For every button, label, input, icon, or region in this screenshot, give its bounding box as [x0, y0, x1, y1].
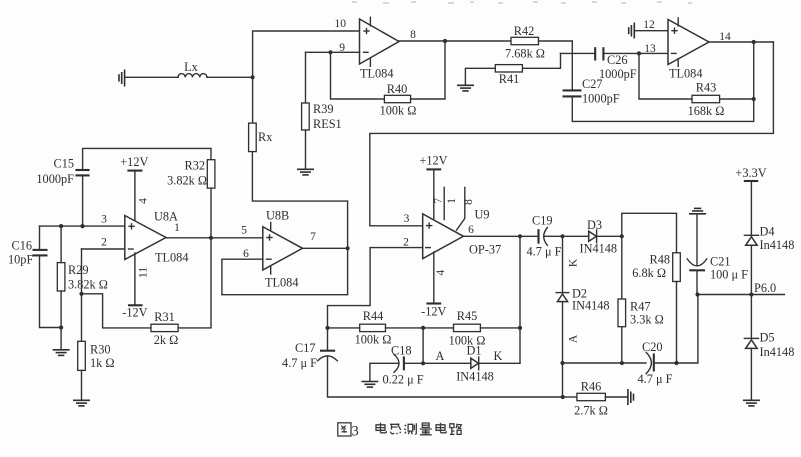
wire pin 13 — [639, 52, 668, 54]
resistor R31 — [151, 324, 178, 331]
resistor R45 — [454, 324, 481, 331]
svg-text:8: 8 — [410, 29, 416, 41]
wire U8B output — [303, 247, 348, 249]
op-amp U9 — [423, 214, 464, 259]
diode D4 — [744, 235, 758, 245]
wire R45 node down to D1 cathode — [519, 328, 521, 363]
capacitor C27 — [563, 90, 582, 96]
svg-text:R47: R47 — [630, 300, 651, 314]
svg-text:C18: C18 — [391, 344, 412, 358]
svg-text:1: 1 — [446, 198, 458, 204]
svg-text:R31: R31 — [154, 310, 175, 324]
svg-text:100 μ F: 100 μ F — [710, 268, 748, 282]
svg-text:U9: U9 — [475, 208, 490, 222]
svg-text:1000pF: 1000pF — [36, 172, 74, 186]
svg-text:3.3k Ω: 3.3k Ω — [630, 313, 664, 327]
svg-text:1k Ω: 1k Ω — [90, 356, 115, 370]
wire pin 8 output to R42 — [399, 40, 511, 42]
svg-text:2.7k Ω: 2.7k Ω — [574, 404, 608, 418]
svg-text:R44: R44 — [363, 309, 384, 323]
wire P6.0 to D5 — [750, 295, 752, 339]
diode D1 — [471, 357, 479, 370]
diode D5 — [744, 338, 758, 348]
wire C19 to D3/D2 node — [545, 235, 563, 237]
resistor R48 — [673, 253, 681, 282]
ground below R30 — [73, 400, 90, 406]
resistor R41 — [495, 65, 522, 72]
svg-text:4.7 μ F: 4.7 μ F — [527, 245, 562, 259]
wire C17 bottom rail — [328, 356, 563, 397]
svg-text:+12V: +12V — [419, 154, 447, 168]
wire node line to C26 — [561, 52, 596, 54]
svg-text:11: 11 — [138, 267, 150, 278]
wire R44 left — [328, 327, 360, 329]
ground below R29 — [53, 350, 70, 356]
svg-text:5: 5 — [241, 225, 247, 237]
svg-text:D5: D5 — [760, 331, 775, 345]
wire R39 to ground — [305, 130, 307, 169]
wire pin 9 input — [306, 51, 360, 53]
node D4/D5 P6.0 junction — [749, 292, 753, 296]
svg-text:IN4148: IN4148 — [456, 370, 494, 384]
wire C15 top feedback — [82, 176, 84, 226]
wire U9 output down to R45 — [519, 236, 521, 328]
svg-text:R48: R48 — [650, 253, 671, 267]
op-amp U8D (right TL084) — [668, 20, 709, 65]
capacitor C17 — [318, 351, 338, 361]
node C19 right junction — [560, 234, 564, 238]
svg-text:3.82k Ω: 3.82k Ω — [167, 174, 207, 188]
量 — [420, 423, 432, 435]
wire D3 anode — [563, 235, 589, 237]
power +3.3V — [735, 166, 766, 181]
wire U8A +input — [40, 225, 125, 227]
wire inductor to node — [207, 76, 253, 78]
node R47 bottom junction — [620, 361, 624, 365]
wire D3 cathode to node — [597, 235, 622, 237]
node R29/C16 ground junction — [59, 325, 63, 329]
power stub top U8B — [270, 223, 272, 231]
svg-text:1000pF: 1000pF — [599, 67, 637, 81]
node R30 junction — [79, 292, 83, 296]
resistor R40 — [384, 95, 410, 102]
wire D2 anode down — [562, 302, 564, 363]
wire R40 to output node — [411, 41, 445, 99]
svg-text:OP-37: OP-37 — [469, 243, 501, 257]
svg-text:RES1: RES1 — [313, 117, 342, 131]
wire +12V to U9 — [433, 169, 435, 224]
node Lx/Rx junction — [251, 75, 255, 79]
ground below C18 — [361, 382, 378, 388]
wire R44/R45 node down to C18/D1 — [422, 328, 424, 363]
capacitor C18 — [394, 354, 404, 372]
wire C21 bottom to P6.0 — [696, 270, 698, 294]
svg-text:8: 8 — [463, 199, 475, 205]
node R45 right junction — [518, 326, 522, 330]
op-amp U8B — [263, 227, 303, 270]
ground right of R46 (sideways bars) — [628, 389, 634, 405]
svg-text:+3.3V: +3.3V — [735, 166, 766, 180]
wire feedback pin9 to R40 — [331, 52, 385, 99]
svg-text:+12V: +12V — [120, 155, 148, 169]
svg-text:K: K — [568, 258, 580, 267]
wire R41 to ground — [465, 68, 495, 85]
wire node to R31 — [82, 294, 152, 328]
power -12V (U8A) — [122, 305, 147, 319]
node R44/R45 junction — [421, 326, 425, 330]
svg-text:7: 7 — [432, 198, 444, 204]
wire C16 top — [39, 226, 41, 249]
wire R43 to pin 13 node — [639, 53, 692, 99]
svg-text:13: 13 — [644, 43, 656, 55]
wire D1 anode — [423, 362, 471, 364]
svg-text:-12V: -12V — [122, 306, 147, 320]
svg-text:In4148: In4148 — [760, 345, 795, 359]
svg-text:7: 7 — [310, 231, 316, 243]
svg-text:3: 3 — [352, 424, 359, 440]
svg-text:10: 10 — [335, 18, 347, 30]
svg-text:3.82k Ω: 3.82k Ω — [68, 278, 108, 292]
inductor Lx — [178, 74, 207, 78]
wire D2 node to rail — [562, 363, 564, 397]
svg-text:R45: R45 — [457, 309, 478, 323]
svg-text:P6.0: P6.0 — [754, 281, 776, 295]
resistor R46 — [577, 393, 606, 400]
路 — [450, 424, 462, 435]
ground at pin 12 (sideways bars) — [629, 23, 635, 39]
caption 图3 电感测量电路 (drawn glyphs) — [338, 423, 462, 436]
diode D2 — [556, 293, 569, 302]
wire junction to ground — [60, 328, 62, 350]
wire pin9 to R39 — [305, 52, 307, 103]
wire R43 right side — [720, 98, 754, 100]
ground below D5 — [743, 400, 760, 406]
power +12V (U8A) — [120, 155, 148, 171]
svg-text:TL084: TL084 — [669, 67, 702, 81]
wire R43 feedback — [753, 42, 755, 99]
svg-text:-12V: -12V — [421, 305, 446, 319]
svg-text:100k Ω: 100k Ω — [380, 104, 417, 118]
svg-text:168k Ω: 168k Ω — [688, 104, 725, 118]
svg-text:D3: D3 — [587, 218, 602, 232]
wire C15 top to R32 top — [83, 148, 211, 169]
感 — [390, 424, 401, 434]
svg-text:7.68k Ω: 7.68k Ω — [505, 47, 545, 61]
node D3 cathode junction — [620, 234, 624, 238]
wire R30 top — [81, 294, 83, 342]
capacitor C26 — [595, 47, 603, 60]
node pin14 feedback junction — [752, 40, 756, 44]
wire node up to op-amp pin 10 — [253, 31, 360, 77]
node U9 output junction — [518, 234, 522, 238]
wire bottom net D2 to C20 — [563, 362, 646, 364]
svg-text:Lx: Lx — [184, 60, 198, 74]
svg-text:D1: D1 — [466, 344, 481, 358]
node C18/D1 junction — [421, 361, 425, 365]
faint cut-off text remnants at top edge — [352, 1, 692, 4]
node output junction — [443, 39, 447, 43]
power stub bottom op-amp U8D — [677, 59, 679, 67]
resistor Rx — [249, 123, 257, 152]
wire R46 left — [563, 396, 577, 398]
svg-text:R43: R43 — [696, 81, 717, 95]
svg-text:IN4148: IN4148 — [572, 299, 610, 313]
resistor R47 — [618, 299, 626, 327]
svg-text:12: 12 — [643, 19, 655, 31]
resistor R44 — [360, 324, 386, 331]
svg-text:R29: R29 — [68, 263, 89, 277]
ground above C21 (inverted) — [689, 208, 706, 213]
capacitor C16 — [33, 250, 48, 256]
svg-text:2: 2 — [403, 237, 409, 249]
wire C20 right up to P6.0 node — [654, 295, 698, 364]
power stub bottom U8B — [270, 266, 272, 274]
power stub top op-amp U8C — [369, 17, 371, 26]
svg-text:R32: R32 — [185, 159, 206, 173]
wire C26 to pin13 node — [603, 52, 639, 54]
node R48 bottom junction — [674, 361, 678, 365]
ground below R39 — [297, 169, 314, 175]
wire +12V to U8A pin 4 — [134, 171, 136, 222]
电 (2nd) — [436, 423, 446, 433]
wire D5 to ground — [750, 348, 752, 400]
node R44 left junction — [325, 326, 329, 330]
svg-text:3: 3 — [101, 214, 107, 226]
power stub top op-amp U8D — [677, 18, 679, 26]
wire R30 to ground — [81, 370, 83, 400]
wire R29 top — [60, 226, 62, 263]
resistor R42 — [511, 37, 539, 44]
capacitor C21 — [687, 259, 707, 270]
wire U9 pin 4 to -12V — [433, 252, 435, 304]
ground (left of Lx, sideways bars) — [119, 70, 125, 87]
wire R41 riser — [522, 53, 560, 68]
wire R44 to R45 — [386, 327, 454, 329]
svg-text:A: A — [568, 334, 580, 343]
node R32/R31 output junction — [209, 236, 213, 240]
svg-text:TL084: TL084 — [360, 67, 393, 81]
测 — [404, 423, 416, 434]
wire C16 bottom to ground node — [40, 256, 62, 327]
svg-text:C17: C17 — [295, 341, 316, 355]
svg-text:C26: C26 — [607, 53, 628, 67]
pin stub 1 (U9) — [0, 0, 1, 1]
op-amp U8A — [125, 216, 166, 260]
node rail junction — [561, 395, 565, 399]
node C21/P6.0 junction — [695, 292, 699, 296]
wire R48 bottom to C20 net — [676, 282, 678, 364]
svg-text:TL084: TL084 — [155, 251, 188, 265]
wire U8A output to U8B +input — [166, 237, 263, 239]
svg-text:C15: C15 — [54, 157, 75, 171]
wire D1 cathode to R45 node — [479, 362, 520, 364]
svg-text:R42: R42 — [514, 24, 535, 38]
svg-text:C16: C16 — [12, 239, 33, 253]
wire ground to inductor Lx — [125, 76, 178, 78]
svg-text:D4: D4 — [760, 225, 775, 239]
resistor R29 — [57, 263, 65, 291]
svg-text:1000pF: 1000pF — [582, 92, 620, 106]
capacitor C19 — [539, 228, 548, 246]
svg-text:C19: C19 — [532, 214, 553, 228]
pin stub 8 (U9) — [457, 187, 465, 230]
svg-text:C21: C21 — [710, 255, 731, 269]
wire U8B -input feedback loop — [222, 152, 348, 295]
svg-text:100k Ω: 100k Ω — [355, 333, 392, 347]
wire R45 right — [480, 327, 520, 329]
node C15 bottom junction — [80, 224, 84, 228]
svg-text:4: 4 — [435, 270, 447, 276]
svg-text:C27: C27 — [582, 77, 603, 91]
wire -input down to R30 node — [81, 249, 83, 294]
wire U8A -input — [82, 248, 125, 250]
wire R42 to node line — [539, 41, 573, 53]
node U8B output junction — [346, 246, 350, 250]
power -12V (U9) — [421, 304, 446, 319]
图 — [338, 423, 351, 436]
svg-text:K: K — [494, 349, 503, 363]
svg-text:Rx: Rx — [258, 130, 272, 144]
power +12V (U9) — [419, 154, 447, 170]
wire R31 to output node — [178, 238, 211, 328]
svg-text:R30: R30 — [90, 343, 111, 357]
wire ground to pin 12 — [634, 30, 668, 32]
power stub bottom op-amp U8C — [369, 59, 371, 67]
wire R32 bottom to output node — [210, 188, 212, 238]
wire C27 bottom loop to R43 node — [572, 98, 753, 122]
svg-text:10pF: 10pF — [8, 253, 33, 267]
wire D4 anode to P6.0 — [750, 245, 752, 294]
resistor R30 — [78, 341, 86, 370]
wire C17 top — [327, 328, 329, 350]
wire R47 bottom — [621, 327, 623, 363]
svg-text:R40: R40 — [387, 82, 408, 96]
svg-text:1: 1 — [174, 222, 180, 234]
svg-text:3: 3 — [404, 213, 410, 225]
svg-text:R46: R46 — [581, 380, 602, 394]
resistor R32 — [207, 160, 215, 188]
resistor R43 — [692, 95, 720, 102]
node R29 top junction — [59, 224, 63, 228]
wire big feedback U8D output to U9 +input — [370, 42, 774, 226]
电 (1st) — [376, 423, 386, 433]
wire C18 left to ground — [370, 363, 399, 381]
wire D3 node up to R48 — [622, 213, 677, 253]
svg-text:A: A — [436, 349, 445, 363]
svg-text:2k Ω: 2k Ω — [154, 333, 179, 347]
wire node down to Rx — [252, 77, 254, 123]
node pin 9 feedback junction — [328, 50, 332, 54]
svg-text:6: 6 — [468, 224, 474, 236]
pin stub 7 (U9) — [443, 187, 445, 219]
capacitor C20 — [646, 352, 654, 373]
svg-text:TL084: TL084 — [265, 276, 298, 290]
svg-text:R39: R39 — [313, 102, 334, 116]
svg-text:4: 4 — [137, 198, 149, 204]
svg-text:C20: C20 — [642, 340, 663, 354]
svg-text:R41: R41 — [499, 72, 520, 86]
diode D3 — [589, 230, 597, 243]
resistor R39 — [302, 103, 310, 130]
wire D3 node down to R47 — [621, 236, 623, 299]
wire +3.3V to D4 — [750, 181, 752, 235]
svg-text:4.7 μ F: 4.7 μ F — [282, 356, 317, 370]
wire U9 output to C19 — [463, 235, 538, 237]
svg-text:4.7 μ F: 4.7 μ F — [638, 372, 673, 386]
svg-text:2: 2 — [101, 237, 107, 249]
svg-text:U8B: U8B — [266, 209, 289, 223]
wire pin 14 output — [709, 41, 773, 43]
node C26/pin13 junction — [637, 51, 641, 55]
svg-text:IN4148: IN4148 — [580, 242, 618, 256]
ground below R41 wire — [457, 85, 474, 91]
wire C27 riser — [571, 53, 573, 89]
svg-text:In4148: In4148 — [760, 238, 795, 252]
wire ground to C21 — [696, 214, 698, 265]
capacitor C15 — [75, 170, 89, 175]
svg-text:6.8k Ω: 6.8k Ω — [632, 266, 666, 280]
wire P6.0 line — [697, 294, 784, 296]
wire R29 bottom — [60, 291, 62, 328]
svg-text:0.22 μ F: 0.22 μ F — [383, 373, 424, 387]
wire R46 right to ground — [605, 396, 628, 398]
node R43 right junction — [752, 97, 756, 101]
svg-text:14: 14 — [719, 31, 731, 43]
wire D2 cathode riser — [562, 236, 564, 292]
wire U9 -input — [328, 248, 423, 328]
wire U8A pin 11 to -12V — [134, 253, 136, 305]
node D2 anode junction — [560, 361, 564, 365]
svg-text:6: 6 — [243, 248, 249, 260]
wire C18 right — [404, 362, 423, 364]
op-amp U8C (top TL084) — [360, 19, 400, 64]
